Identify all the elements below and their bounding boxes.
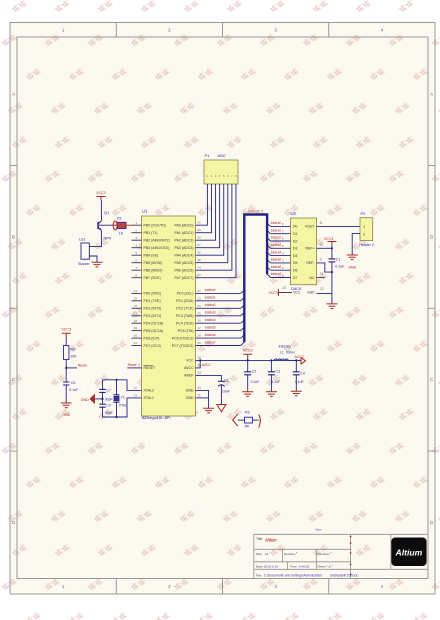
GND symbol under C6 <box>61 403 72 408</box>
svg-text:21: 21 <box>134 341 138 345</box>
svg-text:D0: D0 <box>293 225 298 229</box>
buzzer GND symbol <box>92 262 103 267</box>
Altium logo <box>391 538 426 567</box>
svg-text:databus4: databus4 <box>205 318 216 322</box>
svg-text:2013-3-13: 2013-3-13 <box>264 564 278 568</box>
svg-text:PB7 (SCK): PB7 (SCK) <box>144 276 161 280</box>
svg-text:RESET: RESET <box>144 366 157 370</box>
GND under C4 <box>291 391 302 396</box>
svg-text:GND: GND <box>348 265 356 269</box>
svg-text:databus5: databus5 <box>271 258 281 262</box>
svg-text:VCC3: VCC3 <box>269 291 278 295</box>
crystal wiring bottom <box>103 398 142 417</box>
title block <box>254 534 428 578</box>
svg-text:D4: D4 <box>293 254 298 258</box>
svg-text:VCC: VCC <box>293 290 301 294</box>
svg-text:PA0 (ADC0): PA0 (ADC0) <box>175 224 194 228</box>
svg-text:Reset: Reset <box>128 363 137 367</box>
svg-text:4: 4 <box>381 584 384 589</box>
svg-text:38: 38 <box>197 236 201 240</box>
svg-text:4: 4 <box>381 28 384 33</box>
svg-text:Buzzer: Buzzer <box>79 262 91 266</box>
svg-text:PC0 (SCL): PC0 (SCL) <box>177 292 194 296</box>
svg-text:Size:: Size: <box>256 552 263 556</box>
svg-text:databus2: databus2 <box>205 303 216 307</box>
svg-text:XTAL2: XTAL2 <box>144 389 154 393</box>
svg-text:PC3 (TMS): PC3 (TMS) <box>176 314 194 318</box>
svg-text:PD3 (INT1): PD3 (INT1) <box>144 314 162 318</box>
MCU U1 ATmega16L-8PI <box>142 216 196 416</box>
capacitor C4 0.1uF <box>295 360 297 371</box>
svg-text:30pF: 30pF <box>105 411 113 415</box>
svg-text:PC5 (TDI): PC5 (TDI) <box>178 329 194 333</box>
wire REF- jog <box>317 263 332 272</box>
svg-text:GND: GND <box>186 396 194 400</box>
P2 pin2 wire to GND <box>352 234 360 255</box>
svg-text:35: 35 <box>197 258 201 262</box>
svg-text:databus0: databus0 <box>205 288 216 292</box>
svg-text:17: 17 <box>134 311 138 315</box>
svg-text:Altium: Altium <box>395 547 423 557</box>
svg-text:R3: R3 <box>245 411 250 415</box>
svg-text:databus5: databus5 <box>205 325 216 329</box>
U2 databus wires from bus <box>267 223 270 226</box>
svg-text:28: 28 <box>198 334 202 338</box>
svg-text:27: 27 <box>198 326 202 330</box>
svg-text:25: 25 <box>198 311 202 315</box>
wire Q1 base to R1 <box>98 224 118 226</box>
svg-text:PD6 (ICP): PD6 (ICP) <box>144 336 160 340</box>
svg-text:14: 14 <box>320 272 324 276</box>
svg-text:PA6 (ADC6): PA6 (ADC6) <box>175 269 194 273</box>
svg-text:1: 1 <box>363 225 365 229</box>
svg-text:PD2 (INT0): PD2 (INT0) <box>144 307 162 311</box>
U2 GND symbol <box>326 304 337 309</box>
svg-text:Sheet *: Sheet * <box>318 564 329 568</box>
svg-text:2: 2 <box>168 28 171 33</box>
wire R2 to node <box>65 360 67 368</box>
svg-text:30pF: 30pF <box>105 398 113 402</box>
svg-text:0R: 0R <box>245 425 250 429</box>
svg-text:C1: C1 <box>336 257 341 261</box>
svg-text:databus1: databus1 <box>205 296 216 300</box>
svg-text:A4: A4 <box>265 552 269 556</box>
svg-text:shishiyishili.SchDoc: shishiyishili.SchDoc <box>330 574 358 578</box>
svg-text:C7: C7 <box>106 388 111 392</box>
svg-text:29: 29 <box>198 341 202 345</box>
Reset stub at R2 <box>66 367 77 369</box>
svg-text:10uF: 10uF <box>222 389 230 393</box>
crystal Y1 XTAL <box>116 380 118 395</box>
svg-text:VCC3: VCC3 <box>243 349 253 353</box>
svg-text:31: 31 <box>198 386 202 390</box>
svg-text:40: 40 <box>197 221 201 225</box>
svg-text:10mH: 10mH <box>286 350 296 354</box>
svg-text:0.1uF: 0.1uF <box>251 380 260 384</box>
svg-text:of *: of * <box>329 564 334 568</box>
svg-text:37: 37 <box>197 243 201 247</box>
capacitor C5 10uF <box>218 380 225 382</box>
svg-text:9: 9 <box>320 258 322 262</box>
svg-text:24: 24 <box>198 304 202 308</box>
svg-text:databus3: databus3 <box>271 243 281 247</box>
svg-text:PB1 (T1): PB1 (T1) <box>144 231 158 235</box>
svg-text:Number:: Number: <box>284 552 296 556</box>
svg-text:PC1 (SDA): PC1 (SDA) <box>176 299 193 303</box>
capacitor C6 0.1uF <box>65 368 67 382</box>
svg-text:P1: P1 <box>205 153 211 158</box>
svg-text:33: 33 <box>197 273 201 277</box>
svg-text:0.1uF: 0.1uF <box>335 265 344 269</box>
svg-text:23: 23 <box>198 296 202 300</box>
svg-text:D6: D6 <box>293 269 298 273</box>
connector P1 ADC <box>204 160 238 184</box>
buzzer pin 2 wire to GND <box>89 256 97 262</box>
svg-text:13: 13 <box>134 394 138 398</box>
wire REF+ to VCC3 <box>317 247 332 249</box>
P2 GND symbol <box>347 255 358 260</box>
U2 NC stub <box>317 277 325 279</box>
svg-text:C5: C5 <box>224 379 229 383</box>
wire stub at U1 RESET pin <box>127 367 141 369</box>
svg-text:PD4 (OC1B): PD4 (OC1B) <box>144 322 164 326</box>
svg-text:1K: 1K <box>119 232 124 236</box>
svg-text:12: 12 <box>134 386 138 390</box>
AVCC pin wire <box>196 360 201 368</box>
svg-text:22: 22 <box>198 289 202 293</box>
svg-text:15: 15 <box>282 286 286 290</box>
svg-text:Inductor: Inductor <box>279 344 292 348</box>
svg-text:C2: C2 <box>252 369 257 373</box>
svg-text:D7: D7 <box>293 276 298 280</box>
svg-text:U1: U1 <box>142 209 148 214</box>
svg-text:Q1: Q1 <box>104 211 109 215</box>
svg-text:D5: D5 <box>293 261 298 265</box>
buzzer LS1 <box>81 243 89 259</box>
svg-text:R1: R1 <box>117 217 121 221</box>
svg-text:VCC3: VCC3 <box>96 191 106 195</box>
svg-text:36: 36 <box>197 251 201 255</box>
svg-text:16: 16 <box>134 304 138 308</box>
svg-text:39: 39 <box>197 228 201 232</box>
svg-text:REF-: REF- <box>306 261 315 265</box>
svg-text:C:\Documents and Settings\Admi: C:\Documents and Settings\Administrator <box>264 574 323 578</box>
svg-text:Y1: Y1 <box>121 396 125 400</box>
svg-text:databus6: databus6 <box>205 333 216 337</box>
power port arrow left <box>233 414 238 426</box>
svg-text:34: 34 <box>197 266 201 270</box>
svg-text:XTAL1: XTAL1 <box>144 396 154 400</box>
svg-text:PA2 (ADC2): PA2 (ADC2) <box>175 239 194 243</box>
svg-text:Time:: Time: <box>290 564 298 568</box>
wire VCC rail <box>196 359 302 361</box>
transistor Q1 NPN <box>98 221 101 230</box>
svg-text:VOUT: VOUT <box>305 225 316 229</box>
svg-text:NC: NC <box>310 276 316 280</box>
bus databus <box>244 215 267 343</box>
GND under C3 <box>266 392 277 397</box>
svg-text:databus6: databus6 <box>271 265 281 269</box>
svg-text:PC4 (TDO): PC4 (TDO) <box>176 322 194 326</box>
svg-text:32: 32 <box>198 371 202 375</box>
svg-text:P2: P2 <box>361 211 367 216</box>
svg-text:2: 2 <box>363 232 365 236</box>
resistor R2 10K <box>64 346 69 360</box>
wire Q1 emitter down <box>89 230 101 246</box>
svg-text:databus1: databus1 <box>271 228 281 232</box>
svg-text:3: 3 <box>274 584 277 589</box>
svg-text:0.1uF: 0.1uF <box>271 380 280 384</box>
svg-text:D3: D3 <box>293 247 298 251</box>
svg-text:Reset: Reset <box>78 363 87 367</box>
svg-text:GND: GND <box>307 291 315 295</box>
svg-text:File:: File: <box>256 574 262 578</box>
GND pins wires <box>196 390 209 408</box>
svg-text:GND: GND <box>81 398 89 402</box>
svg-text:databus7: databus7 <box>205 340 216 344</box>
capacitor C1 0.1uF <box>331 248 333 259</box>
svg-text:PD7 (OC2): PD7 (OC2) <box>144 344 161 348</box>
svg-text:26: 26 <box>198 319 202 323</box>
svg-text:1: 1 <box>62 28 65 33</box>
svg-text:R2: R2 <box>70 348 75 352</box>
svg-text:12: 12 <box>320 287 324 291</box>
svg-text:PB4 (SS): PB4 (SS) <box>144 254 159 258</box>
AREF wire <box>196 375 222 381</box>
wire L1 to AVCC port <box>288 359 301 361</box>
svg-text:Date:: Date: <box>256 564 264 568</box>
svg-text:Header 2: Header 2 <box>359 243 374 247</box>
svg-text:0.1uF: 0.1uF <box>69 388 78 392</box>
U2 GND pin wire <box>317 293 332 304</box>
svg-text:1: 1 <box>62 584 65 589</box>
svg-text:PB3 (AIN1/OC0): PB3 (AIN1/OC0) <box>144 246 170 250</box>
svg-text:databus7: databus7 <box>271 272 281 276</box>
svg-text:C3: C3 <box>276 369 281 373</box>
svg-text:U2: U2 <box>291 211 297 216</box>
svg-text:11: 11 <box>198 394 202 398</box>
svg-text:C4: C4 <box>300 372 305 376</box>
svg-text:14: 14 <box>134 289 138 293</box>
svg-text:C9: C9 <box>106 404 111 408</box>
svg-text:databus[0..7]: databus[0..7] <box>248 209 264 213</box>
svg-text:AVCC: AVCC <box>184 366 194 370</box>
svg-text:VCC3: VCC3 <box>61 328 71 332</box>
wire R1 to PB0 pin 1 <box>126 224 132 226</box>
svg-text:PB2 (AIN0/INT2): PB2 (AIN0/INT2) <box>144 239 170 243</box>
svg-text:PA3 (ADC3): PA3 (ADC3) <box>175 246 194 250</box>
GND under U1 <box>203 408 214 413</box>
svg-text:PA5 (ADC5): PA5 (ADC5) <box>175 261 194 265</box>
svg-text:D2: D2 <box>293 239 298 243</box>
svg-text:PD1 (TXD): PD1 (TXD) <box>144 299 161 303</box>
svg-text:REF+: REF+ <box>306 247 315 251</box>
GND under C2 <box>242 392 253 397</box>
svg-text:PD0 (RXD): PD0 (RXD) <box>144 292 162 296</box>
svg-text:C6: C6 <box>71 381 76 385</box>
capacitor C2 0.1uF <box>247 360 249 371</box>
svg-text:NPN: NPN <box>104 237 112 241</box>
svg-text:databus3: databus3 <box>205 311 216 315</box>
svg-text:LS1: LS1 <box>79 238 85 242</box>
earth triangle symbol <box>217 405 226 412</box>
svg-text:ADC: ADC <box>218 153 227 158</box>
svg-text:PA7 (ADC7): PA7 (ADC7) <box>175 276 194 280</box>
svg-text:PC2 (TCK): PC2 (TCK) <box>176 307 193 311</box>
svg-text:10: 10 <box>320 243 324 247</box>
connector P2 Header 2 <box>360 218 373 241</box>
svg-text:3: 3 <box>274 28 277 33</box>
svg-text:ATmega16L-8PI: ATmega16L-8PI <box>142 416 171 420</box>
svg-text:PA1 (ADC1): PA1 (ADC1) <box>175 231 194 235</box>
resistor R1 1K <box>118 222 127 228</box>
svg-text:AREF: AREF <box>184 374 193 378</box>
svg-text:XTAL: XTAL <box>119 404 127 408</box>
capacitor C7 30pF <box>102 380 104 390</box>
svg-text:PB6 (MISO): PB6 (MISO) <box>144 269 163 273</box>
power port arc right <box>252 419 258 421</box>
title block divider marks <box>350 536 352 576</box>
crystal wiring top <box>103 380 142 391</box>
svg-text:Altium: Altium <box>315 527 322 531</box>
svg-text:PB5 (MOSI): PB5 (MOSI) <box>144 261 163 265</box>
svg-text:15: 15 <box>134 296 138 300</box>
capacitor C3 0.1uF <box>270 359 272 361</box>
svg-text:18: 18 <box>134 319 138 323</box>
svg-text:VCC3: VCC3 <box>324 237 333 241</box>
GND power port arrow <box>95 398 103 400</box>
svg-text:B: B <box>430 234 433 239</box>
svg-text:AVCC: AVCC <box>202 363 212 367</box>
svg-text:B: B <box>12 234 15 239</box>
red highlight ellipse <box>113 221 117 230</box>
svg-text:2: 2 <box>168 584 171 589</box>
svg-text:L1: L1 <box>280 350 284 354</box>
U1 left pin stubs PD <box>132 292 142 294</box>
svg-text:databus0: databus0 <box>271 221 281 225</box>
svg-text:PD5 (OC1A): PD5 (OC1A) <box>144 329 164 333</box>
PC databus wires <box>196 292 241 294</box>
svg-text:AVCC: AVCC <box>295 355 305 359</box>
svg-text:databus2: databus2 <box>271 236 281 240</box>
svg-text:D1: D1 <box>293 232 298 236</box>
svg-text:VCC: VCC <box>186 359 194 363</box>
DAC U2 <box>291 218 317 285</box>
svg-text:GND: GND <box>186 389 194 393</box>
svg-text:Title: Title <box>256 537 262 541</box>
svg-text:PC6 (TOSC1): PC6 (TOSC1) <box>172 336 194 340</box>
svg-text:PA4 (ADC4): PA4 (ADC4) <box>175 254 194 258</box>
wire VCC3 to Q1 collector <box>100 200 102 221</box>
svg-text:9:40:05: 9:40:05 <box>299 564 310 568</box>
svg-text:Altium: Altium <box>264 538 276 543</box>
svg-text:PB0 (XCK/T0): PB0 (XCK/T0) <box>144 224 166 228</box>
svg-text:10: 10 <box>198 356 202 360</box>
svg-text:20: 20 <box>134 334 138 338</box>
svg-text:PC7 (TOSC2): PC7 (TOSC2) <box>172 344 194 348</box>
wires P1 to PA staircase <box>196 184 208 225</box>
svg-text:Revision:: Revision: <box>318 552 331 556</box>
svg-text:10K: 10K <box>70 355 77 359</box>
svg-text:GND: GND <box>62 413 70 417</box>
svg-text:11: 11 <box>320 221 324 225</box>
resistor R3 0R <box>238 419 245 421</box>
svg-text:19: 19 <box>134 326 138 330</box>
svg-text:databus4: databus4 <box>271 250 281 254</box>
capacitor C9 30pF <box>99 404 105 407</box>
wire VOUT to P2 <box>317 225 360 227</box>
